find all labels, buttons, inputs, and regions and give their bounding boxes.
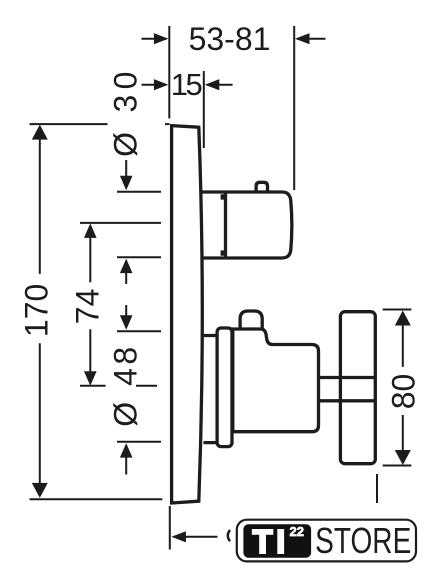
- dim 80 top arrow: [402, 322, 404, 367]
- lower valve flange: [217, 328, 232, 447]
- dim 53-81 left arrow: [142, 38, 167, 40]
- svg-text:15: 15: [171, 67, 202, 102]
- dim 170 top arrow: [39, 136, 41, 274]
- dim 15 right extension line: [203, 71, 205, 148]
- dim 53-81 right extension line: [293, 26, 295, 190]
- dim 80 bottom arrow: [402, 415, 404, 454]
- svg-text:Ø 48: Ø 48: [107, 343, 143, 426]
- dim 74 top arrow: [89, 234, 91, 282]
- dim dia48 bottom arrow: [125, 457, 127, 475]
- dim 80 top extension line: [383, 309, 412, 311]
- knob face bumps: [221, 194, 226, 255]
- dim dia48 top line: [117, 330, 161, 332]
- knob top nub: [256, 182, 267, 191]
- cross handle bar: [340, 312, 375, 464]
- svg-text:TI: TI: [253, 523, 289, 560]
- TI STORE logo box: [237, 520, 416, 562]
- lower handle stem: [320, 378, 341, 401]
- dim dia30 top arrow: [125, 160, 127, 177]
- cross handle hub lines: [340, 378, 375, 401]
- dim 74 bottom extension line: [80, 385, 157, 387]
- dim 170 bottom extension line: [30, 498, 163, 500]
- svg-text:53-81: 53-81: [189, 21, 271, 57]
- thermostat knob face line: [224, 191, 227, 260]
- svg-text:Ø 30: Ø 30: [107, 66, 143, 157]
- bottom dim extension line: [169, 506, 171, 550]
- dim 53-81 left extension line: [168, 26, 170, 119]
- dim dia30 top line: [117, 191, 161, 193]
- dim dia48 top arrow: [125, 305, 127, 316]
- dim 170 bottom arrow: [39, 343, 41, 486]
- handle right extension line: [376, 474, 378, 503]
- lower valve body: [233, 329, 319, 432]
- bottom dim arrow: [174, 536, 218, 538]
- dim 170 top extension line: [30, 123, 170, 125]
- dim 74 top extension line: [80, 222, 161, 224]
- upper valve stem: [202, 192, 226, 258]
- svg-text:22: 22: [290, 524, 304, 539]
- dim 53-81 right arrow: [297, 38, 326, 40]
- dim dia48 bottom line: [117, 441, 161, 443]
- dim 15 left arrow: [142, 84, 167, 86]
- TI logo black tile: [243, 524, 311, 557]
- lower valve cap: [240, 311, 262, 330]
- lower valve connector lines: [204, 336, 218, 443]
- dim 74 bottom arrow: [89, 329, 91, 375]
- dim dia30 bottom line: [117, 256, 161, 258]
- svg-text:80: 80: [385, 374, 421, 410]
- svg-text:170: 170: [19, 284, 55, 337]
- dim 15 right arrow: [207, 84, 233, 86]
- svg-text:74: 74: [70, 289, 106, 325]
- dim 80 bottom extension line: [383, 465, 412, 467]
- bottom dim partial parenthesis: [228, 530, 230, 541]
- dim dia30 bottom arrow: [125, 271, 127, 284]
- svg-text:STORE: STORE: [315, 520, 411, 560]
- escutcheon plate: [172, 126, 203, 503]
- thermostat knob body: [226, 192, 292, 258]
